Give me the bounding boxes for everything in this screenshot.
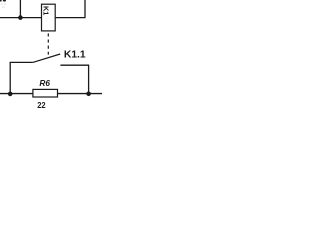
wire left drop from top edge [19, 0, 21, 18]
contact K1.1 blade [33, 54, 60, 62]
node junction dot bottom left [8, 92, 13, 97]
node junction dot bottom right [86, 92, 91, 97]
relay coil K1 [42, 4, 56, 31]
cut-off text top left corner [0, 0, 2, 2]
top rail wire [0, 17, 86, 19]
node junction dot left top [18, 15, 23, 20]
contact K1.1 right terminal wire [60, 65, 88, 93]
svg-text:K1: K1 [42, 6, 51, 15]
bottom rail wire [0, 93, 102, 95]
svg-text:22: 22 [37, 100, 46, 110]
contact K1.1 left wire and pivot [10, 62, 33, 93]
wire right riser to top edge [84, 0, 86, 18]
svg-text:R6: R6 [39, 78, 50, 88]
svg-text:K1.1: K1.1 [64, 50, 86, 61]
resistor R6 body [33, 89, 58, 97]
dashed actuator link [47, 33, 49, 54]
